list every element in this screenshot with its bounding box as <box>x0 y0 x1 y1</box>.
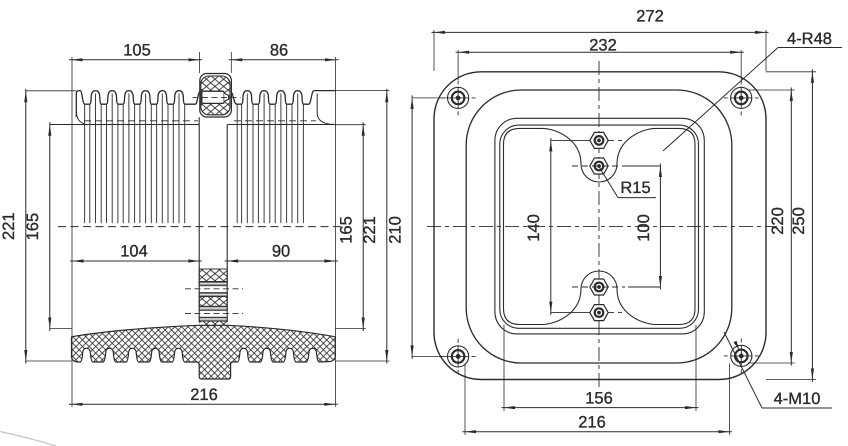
svg-text:220: 220 <box>769 207 787 235</box>
svg-text:R15: R15 <box>620 179 650 197</box>
svg-text:90: 90 <box>272 243 290 261</box>
svg-text:4-M10: 4-M10 <box>774 390 821 408</box>
svg-text:216: 216 <box>190 386 218 404</box>
svg-text:210: 210 <box>387 216 405 244</box>
svg-text:221: 221 <box>0 212 18 240</box>
svg-text:105: 105 <box>123 42 151 60</box>
svg-text:250: 250 <box>790 207 808 235</box>
svg-text:100: 100 <box>635 214 653 242</box>
svg-text:165: 165 <box>338 216 356 244</box>
svg-text:165: 165 <box>24 213 42 241</box>
svg-text:86: 86 <box>270 42 288 60</box>
svg-text:4-R48: 4-R48 <box>787 30 832 48</box>
svg-text:272: 272 <box>636 8 664 26</box>
svg-text:232: 232 <box>589 37 617 55</box>
svg-text:104: 104 <box>120 243 148 261</box>
svg-text:140: 140 <box>525 214 543 242</box>
svg-text:221: 221 <box>361 216 379 244</box>
svg-text:156: 156 <box>585 389 613 407</box>
svg-text:216: 216 <box>578 413 606 431</box>
